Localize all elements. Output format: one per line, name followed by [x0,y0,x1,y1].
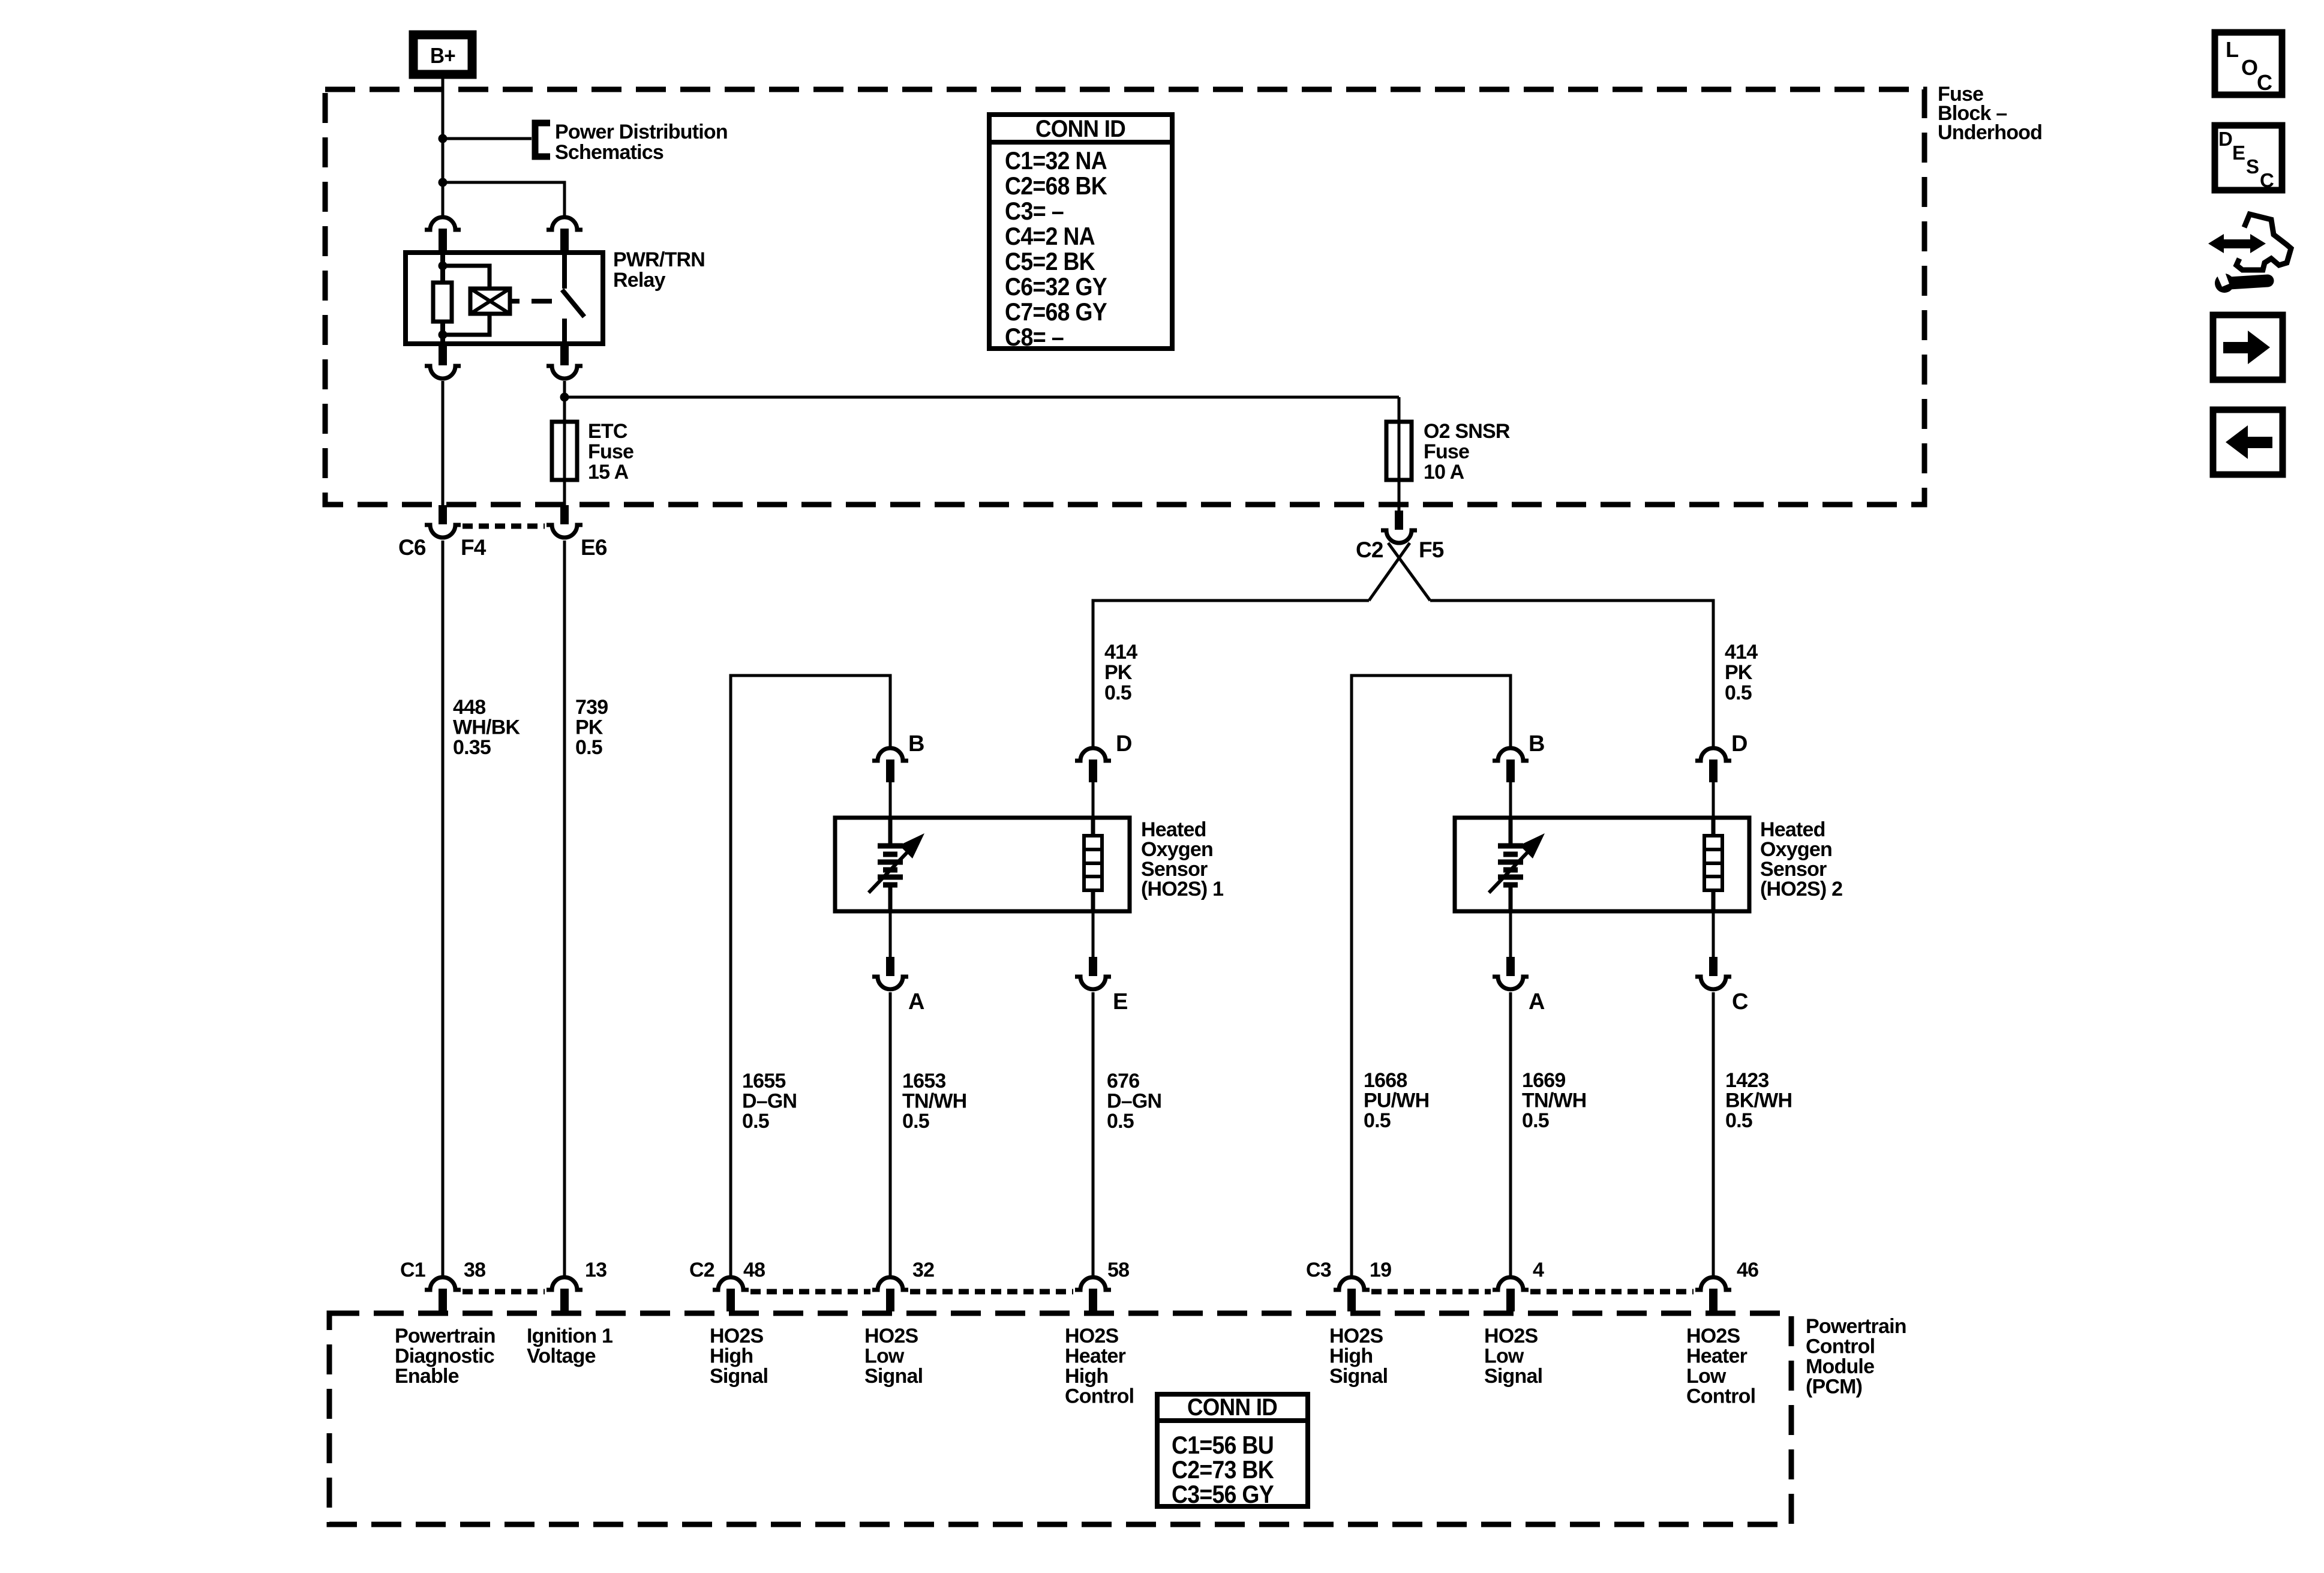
wire relay to ETC fuse [563,381,566,422]
svg-text:(HO2S) 2: (HO2S) 2 [1760,878,1842,900]
wire B+ down to relay [442,79,445,218]
svg-text:D: D [1116,731,1132,757]
svg-text:C1=32 NA: C1=32 NA [1005,146,1107,175]
label Fuse Block Underhood [1938,83,2042,144]
icon DESC button [2215,125,2282,191]
label 1668 PU/WH 0.5 [1364,1069,1429,1132]
label pin C sensor 2 [1732,989,1748,1014]
svg-text:PWR/TRN: PWR/TRN [613,248,705,271]
connector PCM pin 32 [872,1277,908,1311]
svg-text:Power Distribution: Power Distribution [555,121,728,143]
svg-text:Fuse: Fuse [1424,440,1469,463]
HO2S 2 heater element [1704,818,1722,911]
svg-text:(HO2S) 1: (HO2S) 1 [1141,878,1223,900]
svg-text:0.5: 0.5 [1364,1109,1391,1132]
fuse ETC 15 A [552,397,577,507]
svg-text:C8= –: C8= – [1005,323,1064,351]
svg-text:C6=32 GY: C6=32 GY [1005,272,1107,301]
HO2S 2 sensing element [1489,818,1545,911]
svg-text:Low: Low [864,1345,905,1368]
svg-text:15 A: 15 A [588,461,629,484]
svg-text:38: 38 [464,1259,485,1281]
wire D into sensor 2 [1712,782,1715,818]
relay coil parallel loop wires [443,266,490,335]
svg-text:Powertrain: Powertrain [1806,1315,1906,1338]
connector B sensor 2 [1493,748,1529,782]
junction node relay top [439,262,448,271]
svg-text:1653: 1653 [902,1070,945,1092]
wire feed to O2 SNSR fuse [565,396,1399,399]
svg-text:Low: Low [1484,1345,1524,1368]
wire 1653 circuit [889,992,892,1278]
svg-text:HO2S: HO2S [1065,1325,1119,1347]
svg-text:PK: PK [575,716,603,739]
wire 739 circuit [563,541,566,1278]
label pin 4 [1533,1259,1544,1281]
svg-text:Heater: Heater [1065,1345,1126,1368]
svg-text:1669: 1669 [1522,1069,1565,1092]
relay coil pin leads [440,253,445,344]
svg-text:E: E [1113,989,1128,1014]
connector PCM pin 19 [1334,1277,1370,1311]
svg-text:Voltage: Voltage [527,1345,596,1368]
svg-text:O: O [2241,55,2257,80]
wire to relay switch pin [443,182,565,218]
svg-text:0.5: 0.5 [1725,1109,1752,1132]
connector C sensor 2 [1695,957,1731,989]
svg-text:Signal: Signal [864,1365,923,1388]
power symbol B+ [413,35,472,74]
connector relay pin 87 bottom [547,346,582,379]
label HO2S High Signal pin 48 [710,1325,768,1388]
svg-text:Fuse: Fuse [588,440,633,463]
connector C2 dashed body line b [910,1289,1073,1295]
svg-text:High: High [1065,1365,1108,1388]
svg-text:Control: Control [1686,1385,1755,1408]
svg-text:E: E [2232,142,2245,164]
svg-text:414: 414 [1725,641,1758,664]
svg-text:High: High [710,1345,753,1368]
label HO2S High Signal pin 19 [1329,1325,1388,1388]
svg-text:C3: C3 [1306,1259,1331,1281]
svg-text:S: S [2246,155,2259,178]
svg-text:1423: 1423 [1725,1069,1768,1092]
svg-text:HO2S: HO2S [1329,1325,1383,1347]
svg-text:0.5: 0.5 [742,1110,769,1133]
connector A sensor 2 [1493,957,1529,989]
wire down to O2 SNSR fuse [1398,397,1401,422]
connector C6-E6 dashed body line [463,524,545,529]
svg-text:1668: 1668 [1364,1069,1407,1092]
svg-text:Control: Control [1806,1335,1875,1358]
svg-text:739: 739 [575,696,608,719]
label pin 32 [912,1259,934,1281]
connector E6 half [547,505,582,538]
connector A sensor 1 [872,957,908,989]
svg-text:PK: PK [1725,661,1753,684]
junction node O2 fuse feed [560,393,569,402]
svg-text:Underhood: Underhood [1938,121,2042,144]
wire sensor 2 pin A lead [1509,911,1512,957]
svg-text:Schematics: Schematics [555,141,663,164]
heated oxygen sensor HO2S 2 box [1455,818,1749,911]
svg-text:O2 SNSR: O2 SNSR [1424,420,1510,443]
label pin D sensor 1 [1116,731,1132,757]
wire 1423 circuit [1712,992,1715,1278]
connector B sensor 1 [872,748,908,782]
label Powertrain Control Module (PCM) [1806,1315,1906,1398]
label ETC Fuse 15 A [588,420,633,484]
connector C1 dashed body line [463,1289,545,1295]
svg-text:0.35: 0.35 [453,736,491,759]
svg-text:448: 448 [453,696,485,719]
label F5 [1419,538,1444,562]
svg-text:TN/WH: TN/WH [1522,1089,1586,1112]
svg-text:HO2S: HO2S [710,1325,764,1347]
svg-text:676: 676 [1107,1070,1139,1092]
connector PCM pin 46 [1695,1277,1731,1311]
label pin D sensor 2 [1731,731,1747,757]
label 414 PK 0.5 right [1725,641,1758,704]
connector C2 F5 [1381,480,1417,543]
wire sensor 1 pin A lead [889,911,892,957]
svg-text:Signal: Signal [1329,1365,1388,1388]
junction node power distribution tap [439,134,448,143]
svg-text:1655: 1655 [742,1070,785,1092]
svg-text:B: B [908,731,924,757]
label PWR/TRN Relay [613,248,705,292]
wire B into sensor 2 [1509,782,1512,818]
label 1423 BK/WH 0.5 [1725,1069,1792,1132]
svg-text:0.5: 0.5 [1107,1110,1134,1133]
connector PCM pin 4 [1493,1277,1529,1311]
connector C6 F4 left half [425,505,461,538]
connector PCM pin 13 [547,1277,582,1311]
wire 1669 circuit [1509,992,1512,1278]
conn id table fuse block [989,115,1172,351]
svg-text:C3=56 GY: C3=56 GY [1172,1480,1274,1508]
svg-text:F4: F4 [461,535,487,560]
connector D sensor 2 [1695,748,1731,782]
label 739 PK 0.5 [575,696,608,759]
fuse block underhood dashed outline [325,89,1924,505]
svg-text:HO2S: HO2S [1686,1325,1740,1347]
svg-text:Signal: Signal [710,1365,768,1388]
svg-text:0.5: 0.5 [902,1110,929,1133]
relay PWR/TRN box [406,253,603,344]
svg-text:PK: PK [1104,661,1133,684]
wire 1655 circuit with jog [731,676,890,1278]
svg-text:D: D [2218,128,2232,150]
svg-text:C6: C6 [398,535,426,560]
connector PCM pin 38 [425,1277,461,1311]
svg-text:C3= –: C3= – [1005,197,1064,225]
svg-text:Ignition 1: Ignition 1 [527,1325,612,1347]
label Ignition 1 Voltage [527,1325,612,1368]
svg-text:Enable: Enable [395,1365,459,1388]
label pin 46 [1737,1259,1758,1281]
svg-text:4: 4 [1533,1259,1544,1281]
label C6 [398,535,426,560]
svg-text:CONN ID: CONN ID [1035,116,1125,142]
label 676 D-GN 0.5 [1107,1070,1161,1133]
svg-text:10 A: 10 A [1424,461,1464,484]
svg-text:HO2S: HO2S [864,1325,918,1347]
svg-text:PU/WH: PU/WH [1364,1089,1429,1112]
connector D sensor 1 [1075,748,1111,782]
wire 414 left branch [1093,601,1369,749]
junction node relay bottom [439,331,448,340]
label E6 [581,535,607,560]
label pin 13 [585,1259,606,1281]
label pin E sensor 1 [1113,989,1128,1014]
wire 414 right branch [1430,601,1713,749]
svg-text:414: 414 [1104,641,1137,664]
icon back arrow button [2213,410,2283,475]
svg-text:L: L [2226,37,2238,62]
label pin 38 [464,1259,485,1281]
label pin 48 [743,1259,765,1281]
svg-text:WH/BK: WH/BK [453,716,520,739]
label Power Distribution Schematics [555,121,728,164]
svg-text:C2=73 BK: C2=73 BK [1172,1455,1274,1484]
label 1653 TN/WH 0.5 [902,1070,966,1133]
label Heated Oxygen Sensor (HO2S) 2 [1760,818,1842,900]
icon next arrow button [2213,315,2283,380]
svg-text:C1: C1 [400,1259,425,1281]
svg-text:0.5: 0.5 [1104,682,1131,704]
label pin B sensor 2 [1529,731,1545,757]
powertrain control module dashed outline [329,1313,1791,1524]
label C3 pcm [1306,1259,1331,1281]
label HO2S Heater Low Control [1686,1325,1755,1408]
svg-text:32: 32 [912,1259,934,1281]
svg-text:HO2S: HO2S [1484,1325,1538,1347]
label 1655 D-GN 0.5 [742,1070,797,1133]
svg-text:ETC: ETC [588,420,627,443]
label 414 PK 0.5 left [1104,641,1137,704]
svg-text:58: 58 [1107,1259,1129,1281]
svg-text:A: A [908,989,924,1014]
heated oxygen sensor HO2S 1 box [835,818,1130,911]
connector C3 dashed body line a [1371,1289,1491,1295]
relay switch [562,253,584,344]
svg-text:Relay: Relay [613,269,666,292]
wire sensor 2 pin C lead [1712,911,1715,957]
svg-text:Low: Low [1686,1365,1727,1388]
label HO2S Low Signal pin 4 [1484,1325,1542,1388]
svg-text:C2: C2 [689,1259,714,1281]
relay actuation dashed link [510,299,552,304]
label pin 19 [1370,1259,1391,1281]
svg-text:C7=68 GY: C7=68 GY [1005,298,1107,326]
wire B into sensor 1 [889,782,892,818]
svg-text:Diagnostic: Diagnostic [395,1345,494,1368]
relay resistor [433,283,452,322]
wire 1668 circuit with jog [1352,676,1511,1278]
connector relay coil pin top [425,217,461,251]
svg-text:C: C [2260,169,2274,191]
label pin A sensor 2 [1529,989,1545,1014]
relay coil [470,289,510,314]
label Heated Oxygen Sensor (HO2S) 1 [1141,818,1223,900]
svg-text:D: D [1731,731,1747,757]
svg-text:Control: Control [1065,1385,1134,1408]
connector PCM pin 48 [713,1277,749,1311]
connector C3 dashed body line b [1530,1289,1694,1295]
svg-text:F5: F5 [1419,538,1444,562]
label O2 SNSR Fuse 10 A [1424,420,1510,484]
label F4 [461,535,487,560]
label C2 [1356,538,1383,562]
svg-text:Signal: Signal [1484,1365,1542,1388]
fuse O2 SNSR 10 A [1386,397,1412,507]
conn id table PCM [1157,1394,1308,1508]
svg-text:48: 48 [743,1259,765,1281]
HO2S 1 sensing element [869,818,924,911]
label HO2S Heater High Control [1065,1325,1134,1408]
wire 676 circuit [1092,992,1095,1278]
svg-text:19: 19 [1370,1259,1391,1281]
label C1 pcm [400,1259,425,1281]
label 448 WH/BK 0.35 [453,696,520,759]
connector C2 dashed body line a [750,1289,870,1295]
connector relay pin bottom left [425,346,461,379]
svg-text:0.5: 0.5 [575,736,602,759]
svg-text:BK/WH: BK/WH [1725,1089,1792,1112]
wire sensor 1 pin E lead [1092,911,1095,957]
svg-text:E6: E6 [581,535,607,560]
label pin B sensor 1 [908,731,924,757]
svg-text:C1=56 BU: C1=56 BU [1172,1431,1274,1459]
svg-text:46: 46 [1737,1259,1758,1281]
svg-text:CONN ID: CONN ID [1187,1394,1277,1421]
svg-text:Powertrain: Powertrain [395,1325,496,1347]
wire relay to C6 [442,381,445,507]
wire to power distribution reference [443,137,532,140]
connector PCM pin 58 [1075,1277,1111,1311]
svg-text:D–GN: D–GN [742,1090,797,1113]
label 1669 TN/WH 0.5 [1522,1069,1586,1132]
svg-text:A: A [1529,989,1545,1014]
svg-text:C4=2 NA: C4=2 NA [1005,222,1095,250]
svg-text:C2: C2 [1356,538,1383,562]
label Powertrain Diagnostic Enable [395,1325,496,1388]
svg-text:TN/WH: TN/WH [902,1090,966,1113]
svg-text:(PCM): (PCM) [1806,1376,1862,1398]
svg-text:B+: B+ [430,43,455,68]
svg-text:Heater: Heater [1686,1345,1747,1368]
junction node relay switch feed [439,178,448,187]
label C2 pcm [689,1259,714,1281]
svg-text:B: B [1529,731,1545,757]
wire D into sensor 1 [1092,782,1095,818]
svg-text:C2=68 BK: C2=68 BK [1005,172,1107,200]
svg-text:0.5: 0.5 [1522,1109,1549,1132]
svg-text:Module: Module [1806,1355,1874,1378]
label pin A sensor 1 [908,989,924,1014]
icon LOC button [2215,32,2282,95]
connector relay switch pin 30 top [547,217,582,251]
icon service information [2208,214,2291,293]
splice crossover X [1369,543,1430,601]
svg-text:13: 13 [585,1259,606,1281]
label pin 58 [1107,1259,1129,1281]
svg-text:0.5: 0.5 [1725,682,1752,704]
svg-text:High: High [1329,1345,1373,1368]
svg-text:D–GN: D–GN [1107,1090,1161,1113]
off-page reference bracket [535,123,550,157]
svg-text:C: C [2257,70,2272,95]
label HO2S Low Signal pin 32 [864,1325,923,1388]
connector E sensor 1 [1075,957,1111,989]
svg-text:C5=2 BK: C5=2 BK [1005,247,1095,275]
HO2S 1 heater element [1084,818,1102,911]
svg-text:C: C [1732,989,1748,1014]
wire 448 circuit [442,541,445,1278]
